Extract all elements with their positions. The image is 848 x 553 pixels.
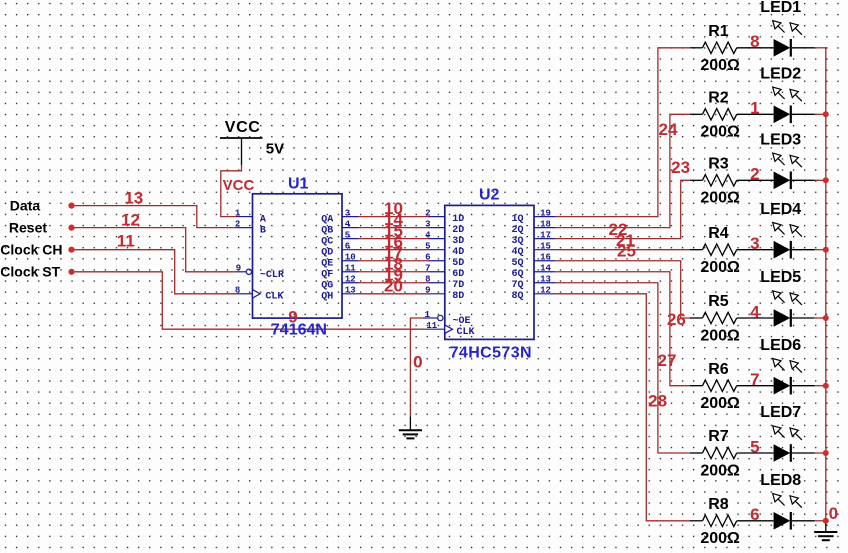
U1 pin 3 QA [342,216,359,218]
svg-text:9: 9 [425,286,430,296]
wire U1 QH to U2 8D (net 20) [359,293,429,295]
U2 pin 19 1Q [534,216,555,218]
LED1 diode [774,39,791,57]
svg-text:LED3: LED3 [760,132,801,149]
svg-text:13: 13 [124,188,143,207]
svg-text:7: 7 [425,264,430,274]
svg-text:CLK: CLK [265,292,283,303]
svg-text:200Ω: 200Ω [700,462,740,479]
wire U1 QG to U2 7D (net 19) [359,282,429,284]
wire LED1 cathode to rail [815,47,827,49]
svg-text:8D: 8D [452,291,464,302]
svg-text:0: 0 [413,353,422,372]
svg-text:5Q: 5Q [511,258,523,269]
svg-text:9: 9 [236,264,241,274]
U2 pin 8 7D [429,282,445,284]
svg-text:LED4: LED4 [760,201,801,218]
svg-text:2D: 2D [452,225,464,236]
svg-text:6: 6 [425,253,430,263]
svg-text:27: 27 [658,351,677,370]
svg-text:4D: 4D [452,247,464,258]
U2 pin 15 4Q [534,249,555,251]
wire U1 QE to U2 5D (net 17) [359,260,429,262]
svg-text:QG: QG [321,281,333,292]
junction node rail/LED4 [823,247,829,253]
svg-text:2Q: 2Q [511,225,523,236]
U2 pin 13 7Q [534,282,555,284]
svg-text:12: 12 [121,211,140,230]
svg-text:QA: QA [321,214,333,225]
svg-text:8: 8 [750,32,759,51]
svg-text:6: 6 [750,505,759,524]
svg-text:R6: R6 [708,361,729,378]
svg-text:200Ω: 200Ω [700,530,740,547]
U2 pin 12 8Q [534,293,555,295]
svg-text:200Ω: 200Ω [700,57,740,74]
svg-text:R7: R7 [708,428,729,445]
svg-text:13: 13 [345,286,356,296]
svg-text:4Q: 4Q [511,247,523,258]
wire U2 7Q to resistor (net 27) [555,283,690,453]
svg-text:24: 24 [659,120,678,139]
wire U2 5Q to resistor (net 25) [555,261,690,318]
U2 pin 14 6Q [534,271,555,273]
wire U2 8Q to resistor (net 28) [555,294,690,521]
svg-text:QC: QC [321,236,333,247]
svg-text:6Q: 6Q [511,269,523,280]
svg-text:QH: QH [321,292,333,303]
svg-text:2: 2 [235,219,240,229]
U1 pin 6 QD [342,249,359,251]
svg-text:6D: 6D [452,269,464,280]
svg-text:6: 6 [345,241,350,251]
wire U2 2Q to resistor (net 23) [555,114,690,227]
svg-text:11: 11 [117,232,135,251]
svg-text:74HC573N: 74HC573N [450,344,532,361]
wire LED8 cathode to rail [815,520,827,522]
svg-text:12: 12 [345,275,356,285]
ground at bottom right rail [814,531,837,533]
svg-text:4: 4 [750,302,760,321]
resistor R4 [690,249,703,251]
svg-text:1: 1 [235,208,241,218]
svg-text:14: 14 [540,264,551,274]
svg-text:R4: R4 [708,225,729,242]
node Clock ST input terminal [68,269,74,275]
wire U2 1Q to resistor (net 24) [555,48,690,217]
resistor R6 [690,385,703,387]
wire Clock ST input to U2 CLK (net 9) [72,272,425,329]
svg-text:U2: U2 [479,186,500,203]
svg-text:QB: QB [321,225,333,236]
svg-text:5V: 5V [266,140,284,157]
wire common cathode rail (net 0) [825,47,827,525]
junction node rail/LED3 [823,177,829,183]
svg-text:LED6: LED6 [760,337,801,354]
svg-text:4: 4 [345,219,351,229]
svg-text:12: 12 [540,286,551,296]
svg-text:20: 20 [384,276,403,295]
wire U2 3Q to resistor (net 22) [555,180,690,238]
U2 pin 3 2D [429,227,445,229]
svg-text:3: 3 [345,208,350,218]
svg-text:LED5: LED5 [760,269,801,286]
svg-text:0: 0 [829,504,838,523]
svg-text:U1: U1 [288,175,309,192]
wire LED7 cathode to rail [815,452,827,454]
wire rail stub to ground [825,521,827,532]
U2 pin 16 5Q [534,260,555,262]
LED2 diode [774,106,791,124]
svg-text:1D: 1D [452,214,464,225]
svg-text:Clock ST: Clock ST [0,264,60,280]
resistor R7 [690,452,703,454]
wire Clock CH input to U1 CLK (net 11) [72,250,237,294]
VCC power symbol [220,137,263,139]
svg-text:7Q: 7Q [511,280,523,291]
svg-text:5D: 5D [452,258,464,269]
svg-text:QD: QD [321,247,333,258]
svg-text:LED8: LED8 [760,472,801,489]
svg-text:LED2: LED2 [760,66,801,83]
LED7 diode [774,444,791,462]
svg-text:3: 3 [750,234,759,253]
svg-text:2: 2 [425,208,430,218]
svg-text:16: 16 [540,253,551,263]
svg-text:5: 5 [750,437,759,456]
LED8 diode [774,512,791,530]
svg-text:11: 11 [426,321,437,331]
ground below U2 ~OE [409,416,411,430]
svg-text:7D: 7D [452,280,464,291]
wire Data input to U1 pin B (net 13) [72,206,237,228]
U1 pin 5 QC [342,238,359,240]
U2 pin 11 CLK [425,328,445,330]
svg-text:Clock CH: Clock CH [0,242,62,258]
wire U1 QC to U2 3D (net 15) [359,238,429,240]
LED5 diode [774,309,791,327]
U2 pin 4 3D [429,238,445,240]
svg-text:8: 8 [425,275,430,285]
resistor R8 [690,520,703,522]
svg-text:R8: R8 [708,496,729,513]
svg-text:LED1: LED1 [760,0,801,16]
svg-text:R5: R5 [708,293,729,310]
wire U1 QA to U2 1D (net 10) [359,216,429,218]
svg-text:QE: QE [321,259,333,270]
wire U2 6Q to resistor (net 26) [555,272,690,386]
U1 pin 1 A [237,216,253,218]
junction node rail/LED5 [823,315,829,321]
wire LED3 cathode to rail [815,179,827,181]
svg-text:200Ω: 200Ω [700,259,740,276]
resistor R1 [690,47,703,49]
wire U2 4Q to resistor (net 21) [555,249,690,251]
svg-text:74164N: 74164N [271,321,327,338]
svg-text:8: 8 [235,286,240,296]
wire LED2 cathode to rail [815,113,827,115]
svg-text:200Ω: 200Ω [700,190,740,207]
LED3 diode [774,172,791,190]
resistor R5 [690,317,703,319]
svg-text:11: 11 [345,264,356,274]
node Clock CH input terminal [68,247,74,253]
node Data input terminal [68,203,74,209]
svg-text:R1: R1 [708,23,729,40]
node Reset input terminal [68,225,74,231]
U2 pin 17 3Q [534,238,555,240]
U1 pin 12 QG [342,282,359,284]
U2 pin 1 ~OE [423,317,438,319]
junction node rail/LED7 [823,450,829,456]
wire U1 QF to U2 6D (net 18) [359,271,429,273]
wire U2 ~OE to ground (net 0) [410,318,423,416]
U1 pin 4 QB [342,227,359,229]
U2 pin 9 8D [429,293,445,295]
svg-text:23: 23 [671,158,690,177]
svg-text:15: 15 [540,241,551,251]
svg-text:3Q: 3Q [511,236,523,247]
svg-text:8Q: 8Q [511,291,523,302]
svg-text:2: 2 [750,165,759,184]
svg-text:LED7: LED7 [760,404,801,421]
svg-text:26: 26 [667,310,686,329]
svg-text:R3: R3 [708,155,729,172]
svg-text:25: 25 [617,241,636,260]
svg-text:13: 13 [540,275,551,285]
svg-text:3D: 3D [452,236,464,247]
svg-text:17: 17 [540,230,551,240]
svg-text:Data: Data [10,197,41,213]
U2 pin 2 1D [429,216,445,218]
svg-text:~OE: ~OE [453,316,471,327]
svg-text:200Ω: 200Ω [700,124,740,141]
wire LED6 cathode to rail [815,385,827,387]
wire VCC to U1 pin A [221,165,242,217]
U1 pin 8 CLK [237,293,253,295]
svg-text:200Ω: 200Ω [700,395,740,412]
svg-text:19: 19 [540,208,551,218]
svg-text:3: 3 [425,219,430,229]
svg-text:QF: QF [321,270,333,281]
svg-text:28: 28 [648,392,667,411]
svg-text:CLK: CLK [457,327,475,338]
U1 pin 13 QH [342,293,359,295]
wire Reset input to U1 ~CLR (net 12) [72,228,237,272]
svg-text:A: A [260,214,266,225]
svg-text:10: 10 [345,253,356,263]
svg-text:R2: R2 [708,89,729,106]
wire LED5 cathode to rail [815,317,827,319]
svg-text:4: 4 [425,230,431,240]
op: U2 74HC573N latch body [445,205,534,339]
svg-text:VCC: VCC [225,119,261,136]
svg-text:5: 5 [345,230,350,240]
resistor R3 [690,179,703,181]
svg-text:9: 9 [288,308,297,327]
svg-text:5: 5 [425,241,430,251]
LED4 diode [774,241,791,259]
wire U1 QB to U2 2D (net 14) [359,227,429,229]
U2 pin 7 6D [429,271,445,273]
U1 pin 9 ~CLR [237,271,247,273]
svg-text:1Q: 1Q [511,214,523,225]
op: U1 74164N shift register body [253,194,343,318]
svg-text:18: 18 [540,219,551,229]
svg-text:1: 1 [750,99,759,118]
svg-text:7: 7 [750,370,759,389]
svg-text:~CLR: ~CLR [260,270,284,281]
resistor R2 [690,113,703,115]
svg-text:1: 1 [425,310,431,320]
U1 pin 10 QE [342,260,359,262]
svg-text:VCC: VCC [223,177,255,194]
wire U1 QD to U2 4D (net 16) [359,249,429,251]
svg-text:Reset: Reset [9,219,47,235]
U1 pin 11 QF [342,271,359,273]
wire LED4 cathode to rail [815,249,827,251]
U2 pin 6 5D [429,260,445,262]
svg-text:B: B [260,225,266,236]
U2 pin 18 2Q [534,227,555,229]
LED6 diode [774,377,791,395]
U1 pin 2 B [237,227,253,229]
junction node rail/LED6 [823,383,829,389]
svg-text:200Ω: 200Ω [700,327,740,344]
junction node rail/LED8 [823,518,829,524]
U2 pin 5 4D [429,249,445,251]
junction node rail/LED2 [823,111,829,117]
